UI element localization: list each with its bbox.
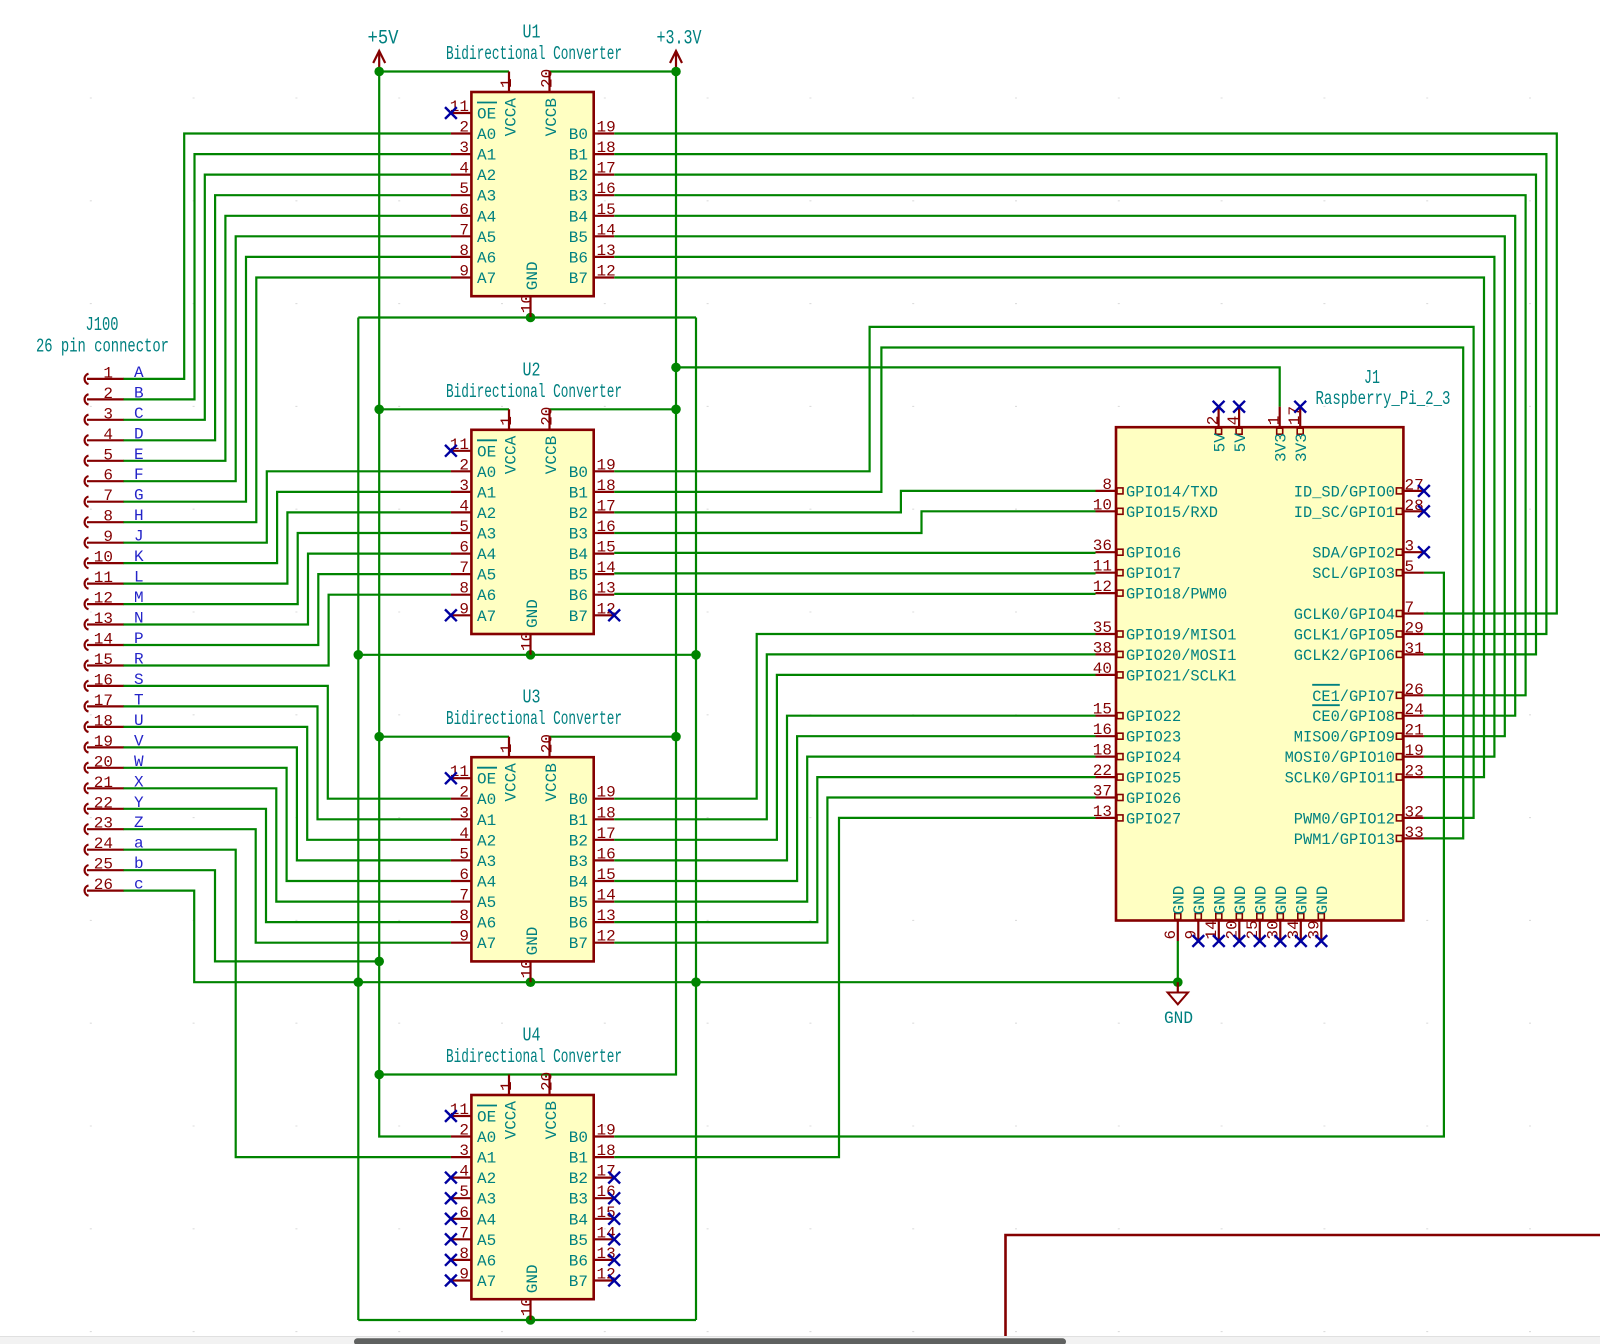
svg-text:A7: A7 bbox=[477, 608, 496, 626]
J1 pin 40 GPIO21/SCLK1 bbox=[1093, 660, 1237, 686]
J1 pin 15 GPIO22 bbox=[1093, 701, 1181, 727]
no-connect U4 A5 bbox=[445, 1233, 457, 1245]
wire U1 B7 to J1 SCLK0/GPIO11 bbox=[614, 278, 1484, 778]
wire +3.3V to U2 VCCB bbox=[550, 408, 677, 410]
power symbol +5V bbox=[368, 28, 399, 72]
no-connect J1 pin 4 bbox=[1233, 401, 1245, 413]
U3 pin 15 B4 bbox=[569, 866, 616, 892]
svg-text:CE0/GPIO8: CE0/GPIO8 bbox=[1312, 708, 1395, 726]
U1 pin 3 A1 bbox=[451, 139, 496, 165]
svg-text:8: 8 bbox=[459, 580, 469, 598]
junction GND / U4 pin 10 bbox=[526, 1315, 536, 1325]
svg-text:PWM0/GPIO12: PWM0/GPIO12 bbox=[1294, 810, 1395, 828]
J1 pin 12 GPIO18/PWM0 bbox=[1093, 578, 1227, 604]
no-connect U2 A7 bbox=[445, 609, 457, 621]
svg-text:B4: B4 bbox=[569, 874, 588, 892]
svg-text:R: R bbox=[134, 651, 144, 669]
U1 pin 9 A7 bbox=[451, 263, 496, 289]
U2 pin 13 B6 bbox=[569, 580, 616, 606]
svg-text:1: 1 bbox=[498, 416, 516, 426]
svg-text:30: 30 bbox=[1264, 920, 1282, 939]
no-connect J1 pin 30 bbox=[1274, 935, 1286, 947]
wire +3.3V to J1 3V3 pin 1 bbox=[676, 367, 1280, 406]
wire net S: J100 pin 16 to U3 A0 bbox=[123, 686, 451, 799]
svg-text:A0: A0 bbox=[477, 1129, 496, 1147]
svg-text:S: S bbox=[134, 671, 144, 689]
junction +3.3V / U3 VCCB bbox=[671, 732, 681, 742]
svg-text:9: 9 bbox=[459, 600, 469, 618]
U3 pin 2 A0 bbox=[451, 784, 496, 810]
junction GND right rail bbox=[691, 977, 701, 987]
wire U2 B5 to J1 GPIO17 bbox=[614, 572, 1095, 574]
svg-text:17: 17 bbox=[94, 692, 113, 710]
svg-text:21: 21 bbox=[94, 774, 113, 792]
J1 pin 27 ID_SD/GPIO0 bbox=[1294, 476, 1424, 501]
U2 pin 18 B1 bbox=[569, 477, 616, 503]
svg-text:B7: B7 bbox=[569, 608, 588, 626]
wire net X: J100 pin 21 to U3 A5 bbox=[123, 788, 451, 901]
J100 pin 21 / net label X bbox=[85, 773, 144, 793]
J100 pin 16 / net label S bbox=[85, 671, 144, 691]
no-connect U4 B7 bbox=[608, 1275, 620, 1287]
svg-text:OE: OE bbox=[477, 1109, 496, 1127]
svg-text:4: 4 bbox=[459, 160, 469, 178]
svg-text:B0: B0 bbox=[569, 126, 588, 144]
wire U2 B4 to J1 GPIO16 bbox=[614, 552, 1095, 554]
svg-text:U: U bbox=[134, 712, 144, 730]
svg-text:17: 17 bbox=[597, 160, 616, 178]
wire net a: J100 pin 24 to U4 A1 bbox=[123, 850, 451, 1157]
svg-text:A4: A4 bbox=[477, 208, 496, 226]
U3 pin 11 OE (output enable) bbox=[450, 763, 497, 789]
U4 pin 15 B4 bbox=[569, 1204, 616, 1230]
svg-text:36: 36 bbox=[1093, 537, 1112, 555]
J100 pin 3 / net label C bbox=[85, 405, 144, 425]
svg-text:1: 1 bbox=[103, 364, 113, 382]
svg-text:32: 32 bbox=[1405, 803, 1424, 821]
J1 pin 37 GPIO26 bbox=[1093, 783, 1181, 809]
J1 pin 9 GND (bottom) bbox=[1182, 886, 1209, 941]
svg-text:GPIO17: GPIO17 bbox=[1126, 565, 1181, 583]
no-connect J1 pin 28 bbox=[1418, 505, 1430, 517]
svg-text:GPIO20/MOSI1: GPIO20/MOSI1 bbox=[1126, 647, 1236, 665]
wire net J: J100 pin 9 to U2 A0 bbox=[123, 471, 451, 542]
wire U4 B1 to J1 GPIO27 bbox=[614, 818, 1095, 1157]
U2 pin 11 OE (output enable) bbox=[450, 436, 497, 462]
U4 pin 9 A7 bbox=[451, 1266, 496, 1292]
svg-text:17: 17 bbox=[597, 497, 616, 515]
junction rail / U4 VCCA feed bbox=[374, 1070, 384, 1080]
U4 pin 20 VCCB bbox=[539, 1072, 562, 1140]
svg-text:13: 13 bbox=[1093, 803, 1112, 821]
svg-text:22: 22 bbox=[1093, 762, 1112, 780]
svg-text:22: 22 bbox=[94, 794, 113, 812]
svg-text:17: 17 bbox=[597, 825, 616, 843]
wire net R: J100 pin 15 to U2 A6 bbox=[123, 595, 451, 666]
wire +3.3V rail (vertical x=676) down and left to U4 VCCA/VCCB bbox=[379, 72, 676, 1075]
no-connect J1 pin 3 bbox=[1418, 546, 1430, 558]
svg-text:1: 1 bbox=[498, 1081, 516, 1091]
svg-text:Z: Z bbox=[134, 814, 144, 832]
svg-text:19: 19 bbox=[597, 1122, 616, 1140]
U2 pin 10 GND bbox=[519, 599, 543, 655]
wire U4 B0 to J1 SCL/GPIO3 bbox=[614, 573, 1444, 1137]
svg-text:U1: U1 bbox=[523, 22, 541, 44]
partial component outline (bottom right, cropped) bbox=[1006, 1235, 1600, 1336]
U1 pin 19 B0 bbox=[569, 119, 616, 145]
no-connect U4 pin 11 OE bbox=[445, 1110, 457, 1122]
J1 pin 16 GPIO23 bbox=[1093, 721, 1181, 747]
U3 pin 17 B2 bbox=[569, 825, 616, 851]
svg-text:VCCA: VCCA bbox=[503, 1101, 521, 1140]
svg-text:J1: J1 bbox=[1364, 367, 1380, 389]
svg-text:13: 13 bbox=[597, 242, 616, 260]
no-connect J1 pin 2 bbox=[1213, 401, 1225, 413]
svg-text:B2: B2 bbox=[569, 832, 588, 850]
svg-text:10: 10 bbox=[519, 632, 537, 651]
svg-text:18: 18 bbox=[597, 477, 616, 495]
J1 pin 20 GND (bottom) bbox=[1223, 886, 1250, 941]
power symbol +3.3V bbox=[657, 28, 702, 72]
junction +5V / U2 VCCA bbox=[374, 405, 384, 415]
J100 pin 8 / net label H bbox=[85, 507, 144, 527]
U4 pin 12 B7 bbox=[569, 1266, 616, 1292]
J100 pin 24 / net label a bbox=[85, 835, 144, 855]
svg-text:OE: OE bbox=[477, 443, 496, 461]
J1 pin 33 PWM1/GPIO13 bbox=[1294, 824, 1424, 849]
wire net C: J100 pin 3 to U1 A2 bbox=[123, 175, 451, 420]
svg-text:GCLK0/GPIO4: GCLK0/GPIO4 bbox=[1294, 606, 1395, 624]
wire U2 B0 to J1 PWM0/GPIO12 bbox=[614, 327, 1473, 818]
J100 pin 25 / net label b bbox=[85, 855, 144, 875]
svg-text:12: 12 bbox=[94, 590, 113, 608]
J100 pin 15 / net label R bbox=[85, 651, 144, 671]
U1 pin 7 A5 bbox=[451, 221, 496, 247]
svg-text:B4: B4 bbox=[569, 1211, 588, 1229]
wire U3 B5 to J1 GPIO24 bbox=[614, 757, 1095, 902]
wire net N: J100 pin 13 to U2 A4 bbox=[123, 554, 451, 625]
svg-text:MOSI0/GPIO10: MOSI0/GPIO10 bbox=[1285, 749, 1395, 767]
svg-text:23: 23 bbox=[94, 815, 113, 833]
svg-text:B7: B7 bbox=[569, 1273, 588, 1291]
J1 pin 24 CE0/GPIO8 bbox=[1312, 701, 1424, 726]
IC U4 Bidirectional Converter bbox=[471, 1095, 593, 1299]
svg-text:VCCA: VCCA bbox=[503, 763, 521, 802]
svg-text:3V3: 3V3 bbox=[1273, 433, 1291, 462]
U2 pin 19 B0 bbox=[569, 456, 616, 482]
wire U1 B3 to J1 CE1/GPIO7 bbox=[614, 195, 1525, 695]
no-connect U2 pin 11 OE bbox=[445, 445, 457, 457]
svg-text:3: 3 bbox=[459, 477, 469, 495]
svg-text:T: T bbox=[134, 691, 144, 709]
svg-text:2: 2 bbox=[103, 385, 113, 403]
svg-text:3: 3 bbox=[1405, 538, 1415, 556]
wire U3 B3 to J1 GPIO22 bbox=[614, 716, 1095, 861]
no-connect J1 pin 17 bbox=[1294, 401, 1306, 413]
svg-text:A0: A0 bbox=[477, 791, 496, 809]
svg-text:21: 21 bbox=[1405, 722, 1424, 740]
svg-text:7: 7 bbox=[103, 487, 113, 505]
svg-text:19: 19 bbox=[1405, 742, 1424, 760]
svg-text:GND: GND bbox=[1253, 886, 1271, 915]
svg-text:10: 10 bbox=[94, 549, 113, 567]
U1 pin 4 A2 bbox=[451, 160, 496, 186]
wire U2 GND between left and right GND rails bbox=[358, 654, 696, 656]
U4 pin 14 B5 bbox=[569, 1224, 616, 1250]
svg-text:GPIO26: GPIO26 bbox=[1126, 790, 1181, 808]
svg-text:c: c bbox=[134, 876, 144, 894]
junction GND left rail bbox=[354, 977, 364, 987]
no-connect U4 B3 bbox=[608, 1192, 620, 1204]
svg-text:19: 19 bbox=[597, 456, 616, 474]
svg-text:D: D bbox=[134, 425, 144, 443]
svg-text:Bidirectional Converter: Bidirectional Converter bbox=[446, 708, 622, 730]
svg-text:G: G bbox=[134, 487, 144, 505]
svg-text:31: 31 bbox=[1405, 640, 1424, 658]
svg-text:1: 1 bbox=[498, 78, 516, 88]
svg-text:15: 15 bbox=[94, 651, 113, 669]
svg-text:18: 18 bbox=[597, 1142, 616, 1160]
J100 pin 9 / net label J bbox=[85, 528, 144, 548]
wire U2 B1 to J1 PWM1/GPIO13 bbox=[614, 348, 1463, 839]
junction GND / U3 pin 10 bbox=[526, 977, 536, 987]
svg-text:5: 5 bbox=[459, 845, 469, 863]
wire GND left rail (x=358) bbox=[357, 318, 359, 1321]
svg-text:16: 16 bbox=[597, 845, 616, 863]
wire net G: J100 pin 7 to U1 A6 bbox=[123, 257, 451, 502]
svg-text:P: P bbox=[134, 630, 144, 648]
svg-text:GND: GND bbox=[1314, 886, 1332, 915]
svg-text:SDA/GPIO2: SDA/GPIO2 bbox=[1312, 545, 1395, 563]
svg-text:20: 20 bbox=[539, 407, 557, 426]
svg-text:15: 15 bbox=[597, 866, 616, 884]
U3 pin 13 B6 bbox=[569, 907, 616, 933]
no-connect U2 B7 bbox=[608, 609, 620, 621]
wire +5V rail (vertical x=379) down to U4 A0 bbox=[379, 72, 451, 1137]
svg-text:A2: A2 bbox=[477, 832, 496, 850]
J1 pin 13 GPIO27 bbox=[1093, 803, 1181, 829]
svg-text:10: 10 bbox=[1093, 496, 1112, 514]
U1 pin 8 A6 bbox=[451, 242, 496, 268]
svg-text:+3.3V: +3.3V bbox=[657, 28, 702, 51]
svg-text:B6: B6 bbox=[569, 915, 588, 933]
svg-text:14: 14 bbox=[94, 631, 113, 649]
svg-text:12: 12 bbox=[597, 263, 616, 281]
svg-text:B0: B0 bbox=[569, 791, 588, 809]
U2 pin 16 B3 bbox=[569, 518, 616, 544]
svg-text:5V: 5V bbox=[1232, 433, 1250, 453]
wire U1 B6 to J1 MOSI0/GPIO10 bbox=[614, 257, 1494, 757]
U4 pin 18 B1 bbox=[569, 1142, 616, 1168]
wire net P: J100 pin 14 to U2 A5 bbox=[123, 574, 451, 645]
svg-text:VCCA: VCCA bbox=[503, 98, 521, 137]
svg-text:M: M bbox=[134, 589, 144, 607]
J100 pin 26 / net label c bbox=[85, 876, 144, 896]
svg-text:A6: A6 bbox=[477, 1252, 496, 1270]
J1 pin 17 3V3 (top) bbox=[1286, 406, 1311, 462]
wire U3 B7 to J1 GPIO26 bbox=[614, 798, 1095, 943]
svg-text:+5V: +5V bbox=[368, 28, 399, 51]
J1 pin 25 GND (bottom) bbox=[1244, 886, 1271, 941]
svg-text:7: 7 bbox=[459, 221, 469, 239]
svg-text:GPIO24: GPIO24 bbox=[1126, 749, 1181, 767]
J100 pin 22 / net label Y bbox=[85, 794, 144, 814]
wire U3 B1 to J1 GPIO20/MOSI1 bbox=[614, 654, 1095, 819]
J1 pin 38 GPIO20/MOSI1 bbox=[1093, 639, 1237, 665]
no-connect J1 pin 39 bbox=[1315, 935, 1327, 947]
J1 pin 32 PWM0/GPIO12 bbox=[1294, 803, 1424, 828]
svg-text:B5: B5 bbox=[569, 1232, 588, 1250]
svg-text:A: A bbox=[134, 364, 144, 382]
svg-text:SCL/GPIO3: SCL/GPIO3 bbox=[1312, 565, 1395, 583]
svg-text:5: 5 bbox=[459, 518, 469, 536]
svg-text:16: 16 bbox=[1093, 721, 1112, 739]
svg-text:6: 6 bbox=[1162, 930, 1180, 940]
svg-text:A6: A6 bbox=[477, 587, 496, 605]
J1 pin 14 GND (bottom) bbox=[1203, 886, 1230, 941]
svg-text:14: 14 bbox=[1203, 920, 1221, 939]
wire U2 B6 to J1 GPIO18 bbox=[614, 593, 1095, 595]
no-connect U1 pin 11 OE bbox=[445, 107, 457, 119]
U3 pin 10 GND bbox=[519, 927, 543, 983]
svg-text:19: 19 bbox=[597, 784, 616, 802]
U4 pin 13 B6 bbox=[569, 1245, 616, 1271]
U1 pin 2 A0 bbox=[451, 119, 496, 145]
svg-text:5: 5 bbox=[459, 180, 469, 198]
svg-text:GPIO27: GPIO27 bbox=[1126, 810, 1181, 828]
J1 pin 21 MISO0/GPIO9 bbox=[1294, 722, 1424, 747]
svg-text:GND: GND bbox=[1191, 886, 1209, 915]
svg-text:U2: U2 bbox=[523, 359, 541, 381]
no-connect J1 pin 34 bbox=[1295, 935, 1307, 947]
svg-text:25: 25 bbox=[1244, 920, 1262, 939]
svg-text:4: 4 bbox=[459, 825, 469, 843]
svg-text:6: 6 bbox=[459, 866, 469, 884]
svg-text:GPIO22: GPIO22 bbox=[1126, 708, 1181, 726]
J1 pin 28 ID_SC/GPIO1 bbox=[1294, 497, 1424, 522]
U1 pin 15 B4 bbox=[569, 201, 616, 227]
wire +5V to U2 VCCA bbox=[379, 408, 509, 410]
junction +3.3V / U2 VCCB bbox=[671, 405, 681, 415]
svg-text:VCCB: VCCB bbox=[543, 98, 561, 136]
svg-text:A0: A0 bbox=[477, 464, 496, 482]
J1 reference / value labels bbox=[1316, 367, 1451, 410]
svg-text:A7: A7 bbox=[477, 270, 496, 288]
U2 pin 20 VCCB bbox=[539, 407, 562, 475]
J100 pin 6 / net label F bbox=[85, 466, 144, 486]
wire net D: J100 pin 4 to U1 A3 bbox=[123, 195, 451, 440]
U2 reference / value labels bbox=[446, 359, 622, 403]
no-connect U4 B5 bbox=[608, 1233, 620, 1245]
svg-text:Raspberry_Pi_2_3: Raspberry_Pi_2_3 bbox=[1316, 388, 1451, 410]
svg-text:GND: GND bbox=[524, 261, 542, 290]
U1 pin 14 B5 bbox=[569, 221, 616, 247]
U1 pin 11 OE (output enable) bbox=[450, 98, 497, 124]
svg-text:Y: Y bbox=[134, 794, 144, 812]
svg-text:18: 18 bbox=[1093, 742, 1112, 760]
IC U1 Bidirectional Converter bbox=[471, 92, 593, 296]
svg-text:GND: GND bbox=[524, 599, 542, 628]
U1 pin 5 A3 bbox=[451, 180, 496, 206]
U3 pin 5 A3 bbox=[451, 845, 496, 871]
U3 pin 7 A5 bbox=[451, 887, 496, 913]
wire +3.3V to U3 VCCB bbox=[550, 736, 677, 738]
svg-text:7: 7 bbox=[1405, 599, 1415, 617]
U4 pin 6 A4 bbox=[451, 1204, 496, 1230]
svg-text:GCLK2/GPIO6: GCLK2/GPIO6 bbox=[1294, 647, 1395, 665]
J100 pin 11 / net label L bbox=[85, 569, 144, 589]
wire net M: J100 pin 12 to U2 A3 bbox=[123, 533, 451, 604]
svg-text:18: 18 bbox=[94, 712, 113, 730]
junction +5V at power symbol bbox=[374, 67, 384, 77]
U1 pin 1 VCCA bbox=[498, 72, 521, 137]
U3 pin 8 A6 bbox=[451, 907, 496, 933]
svg-text:13: 13 bbox=[597, 907, 616, 925]
junction GND / U2 pin 10 stub bbox=[526, 650, 536, 660]
U3 reference / value labels bbox=[446, 687, 622, 731]
svg-text:2: 2 bbox=[459, 119, 469, 137]
svg-text:15: 15 bbox=[1093, 701, 1112, 719]
svg-text:7: 7 bbox=[459, 887, 469, 905]
svg-text:8: 8 bbox=[103, 508, 113, 526]
J1 pin 34 GND (bottom) bbox=[1285, 886, 1312, 941]
svg-text:20: 20 bbox=[539, 69, 557, 88]
connector J1 Raspberry_Pi_2_3 bbox=[1116, 427, 1403, 920]
svg-text:6: 6 bbox=[459, 539, 469, 557]
svg-text:B0: B0 bbox=[569, 464, 588, 482]
J1 pin 26 CE1/GPIO7 bbox=[1312, 681, 1424, 706]
svg-text:A6: A6 bbox=[477, 915, 496, 933]
U3 pin 14 B5 bbox=[569, 887, 616, 913]
wire net Y: J100 pin 22 to U3 A6 bbox=[123, 809, 451, 922]
J100 pin 4 / net label D bbox=[85, 425, 144, 445]
J1 pin 18 GPIO24 bbox=[1093, 742, 1181, 768]
svg-text:GND: GND bbox=[1273, 886, 1291, 915]
U2 pin 17 B2 bbox=[569, 497, 616, 523]
wire net L: J100 pin 11 to U2 A2 bbox=[123, 512, 451, 583]
svg-text:3: 3 bbox=[459, 139, 469, 157]
svg-text:1: 1 bbox=[498, 744, 516, 754]
U2 pin 6 A4 bbox=[451, 539, 496, 565]
svg-text:B0: B0 bbox=[569, 1129, 588, 1147]
svg-text:B6: B6 bbox=[569, 1252, 588, 1270]
svg-text:26: 26 bbox=[1405, 681, 1424, 699]
U2 pin 5 A3 bbox=[451, 518, 496, 544]
no-connect J1 pin 27 bbox=[1418, 485, 1430, 497]
svg-text:2: 2 bbox=[459, 456, 469, 474]
svg-text:E: E bbox=[134, 446, 144, 464]
svg-text:A1: A1 bbox=[477, 147, 496, 165]
J1 pin 11 GPIO17 bbox=[1093, 558, 1181, 584]
U2 pin 8 A6 bbox=[451, 580, 496, 606]
J100 pin 13 / net label N bbox=[85, 610, 144, 630]
wire U3 B0 to J1 GPIO19/MISO1 bbox=[614, 634, 1095, 799]
svg-text:GPIO25: GPIO25 bbox=[1126, 770, 1181, 788]
wire +5V to U1 VCCA bbox=[379, 70, 509, 72]
svg-text:33: 33 bbox=[1405, 824, 1424, 842]
U2 pin 7 A5 bbox=[451, 559, 496, 585]
J1 pin 4 5V (top) bbox=[1225, 407, 1250, 453]
no-connect U4 B6 bbox=[608, 1254, 620, 1266]
U1 pin 12 B7 bbox=[569, 263, 616, 289]
svg-text:F: F bbox=[134, 466, 144, 484]
ground symbol GND bbox=[1164, 982, 1193, 1029]
wire net H: J100 pin 8 to U1 A7 bbox=[123, 278, 451, 523]
wire net T: J100 pin 17 to U3 A1 bbox=[123, 706, 451, 819]
svg-text:24: 24 bbox=[1405, 701, 1424, 719]
J1 pin 10 GPIO15/RXD bbox=[1093, 496, 1218, 522]
U3 pin 18 B1 bbox=[569, 804, 616, 830]
